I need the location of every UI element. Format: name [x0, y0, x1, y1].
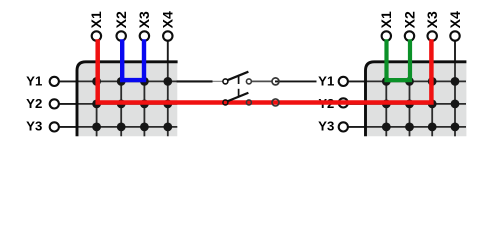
svg-text:X4: X4 [447, 11, 463, 28]
svg-text:Y1: Y1 [26, 74, 42, 89]
svg-text:Y1: Y1 [318, 74, 334, 89]
svg-text:X3: X3 [424, 11, 440, 28]
svg-text:Y2: Y2 [26, 96, 42, 111]
svg-text:Y3: Y3 [318, 119, 334, 134]
svg-text:X1: X1 [88, 11, 104, 28]
svg-text:X3: X3 [136, 11, 152, 28]
svg-text:Y3: Y3 [26, 119, 42, 134]
svg-text:X2: X2 [113, 11, 129, 28]
svg-text:X2: X2 [401, 11, 417, 28]
svg-text:X4: X4 [160, 11, 176, 28]
svg-text:X1: X1 [378, 11, 394, 28]
